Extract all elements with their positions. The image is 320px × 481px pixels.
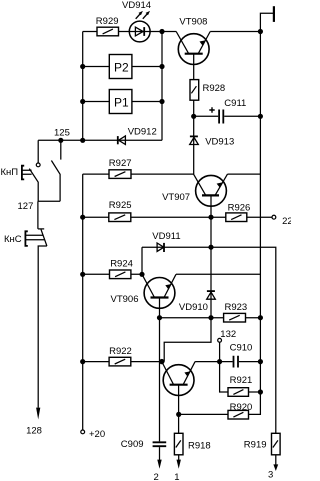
- svg-text:VD911: VD911: [152, 231, 180, 242]
- svg-text:VT906: VT906: [111, 294, 139, 305]
- svg-text:R924: R924: [110, 258, 133, 269]
- svg-text:VD914: VD914: [122, 0, 151, 11]
- svg-text:C910: C910: [230, 343, 253, 354]
- svg-text:22: 22: [282, 216, 291, 227]
- svg-text:R920: R920: [230, 402, 253, 413]
- svg-text:125: 125: [54, 127, 70, 138]
- svg-text:КнС: КнС: [4, 234, 22, 245]
- svg-text:VT908: VT908: [179, 17, 207, 28]
- svg-text:R921: R921: [230, 375, 253, 386]
- svg-text:VD913: VD913: [205, 136, 234, 147]
- svg-text:3: 3: [268, 470, 273, 481]
- svg-text:R922: R922: [109, 346, 132, 357]
- svg-text:C911: C911: [224, 98, 246, 109]
- svg-text:VD912: VD912: [128, 126, 157, 137]
- svg-text:VD910: VD910: [179, 302, 208, 313]
- svg-text:C909: C909: [121, 439, 144, 450]
- svg-text:1: 1: [174, 472, 179, 481]
- svg-text:R928: R928: [203, 83, 226, 94]
- svg-text:128: 128: [26, 426, 42, 437]
- svg-text:132: 132: [220, 329, 236, 340]
- svg-text:R923: R923: [225, 302, 248, 313]
- svg-text:P1: P1: [114, 96, 129, 110]
- svg-text:R918: R918: [188, 441, 211, 452]
- svg-text:VT907: VT907: [162, 192, 190, 203]
- svg-text:+20: +20: [89, 429, 105, 440]
- svg-text:127: 127: [18, 201, 34, 212]
- svg-text:R926: R926: [228, 202, 251, 213]
- svg-text:R927: R927: [109, 158, 132, 169]
- svg-text:КнП: КнП: [1, 167, 19, 178]
- svg-text:R919: R919: [244, 440, 267, 451]
- svg-text:R929: R929: [96, 16, 119, 27]
- svg-text:2: 2: [154, 472, 159, 481]
- svg-text:P2: P2: [114, 61, 129, 75]
- svg-text:R925: R925: [109, 200, 132, 211]
